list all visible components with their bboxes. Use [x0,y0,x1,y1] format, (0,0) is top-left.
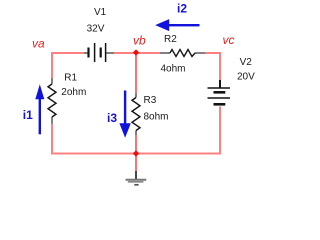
ground bar 1 [126,179,147,181]
svg-text:vc: vc [223,33,235,47]
svg-text:i1: i1 [23,108,33,122]
svg-text:R3: R3 [144,95,157,106]
battery V1 plates [87,43,105,62]
battery V1 lead right [106,52,114,54]
svg-text:i3: i3 [107,111,117,125]
resistor R2 zigzag [170,50,195,57]
svg-text:va: va [32,37,45,51]
wire top middle V1 to vb to R2 [114,52,160,54]
wire top-left horizontal va to V1 [52,52,84,54]
svg-text:32V: 32V [87,24,105,35]
wire top-right R2 to vc corner down [205,53,220,82]
ground bar 3 [134,184,138,186]
svg-text:20V: 20V [237,71,255,82]
resistor R3 zigzag [132,98,140,131]
resistor R2 lead right [195,52,205,54]
ground bar 2 [128,181,144,183]
current arrow i2 [155,19,199,31]
battery V2 plates [208,88,231,106]
ground lead [135,171,137,180]
current arrow i1 [35,84,44,134]
wire left vertical R1 down to bottom corner [51,124,53,155]
battery V1 lead left [84,52,88,54]
svg-text:V2: V2 [240,57,253,68]
wire bottom horizontal [51,153,220,155]
resistor R3 lead bottom [135,131,137,136]
junction dot bottom [133,150,140,157]
svg-text:vb: vb [133,34,146,48]
battery V2 lead top [219,80,221,88]
wire middle vertical R3 to bottom junction to ground [135,135,137,172]
resistor R1 lead bottom [51,117,53,124]
current arrow i3 [119,91,130,138]
svg-text:R1: R1 [64,72,77,83]
resistor R1 zigzag [48,84,56,117]
resistor R2 lead left [160,52,170,54]
wire middle vertical vb down to R3 [135,53,137,93]
svg-text:i2: i2 [177,2,187,16]
svg-text:4ohm: 4ohm [161,63,186,74]
svg-text:2ohm: 2ohm [61,87,86,98]
resistor R3 lead top [135,93,137,98]
svg-text:R2: R2 [164,34,177,45]
wire left vertical va down to R1 [51,52,53,78]
svg-text:8ohm: 8ohm [144,112,169,123]
junction dot vb [133,49,140,56]
resistor R1 lead top [51,78,53,84]
wire right vertical V2 bottom to corner [219,107,221,155]
svg-text:V1: V1 [94,7,107,18]
